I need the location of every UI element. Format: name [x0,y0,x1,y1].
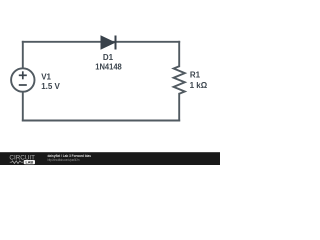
svg-text:D1: D1 [103,53,114,62]
svg-text:V1: V1 [41,72,51,81]
svg-text:http://circuitlab.com/c/pax5t7: http://circuitlab.com/c/pax5t7m [48,158,80,162]
svg-text:LAB: LAB [26,161,34,165]
svg-text:1 kΩ: 1 kΩ [190,81,208,90]
svg-text:R1: R1 [190,71,201,80]
svg-text:1.5 V: 1.5 V [41,82,60,91]
svg-text:1N4148: 1N4148 [95,63,122,72]
